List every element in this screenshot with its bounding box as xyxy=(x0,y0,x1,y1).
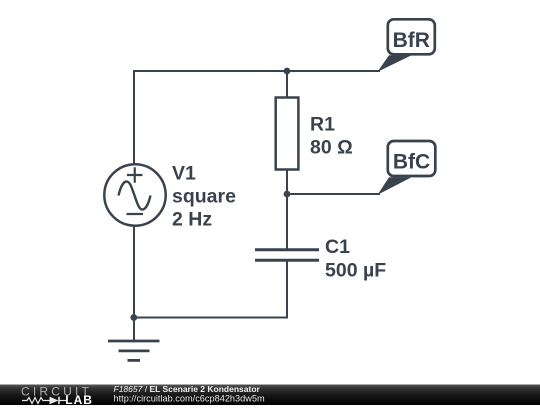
junction dot at top of R1 xyxy=(284,68,291,75)
svg-text:500 µF: 500 µF xyxy=(325,259,386,281)
wire C1 bottom lead xyxy=(286,260,288,317)
wire C1 top lead xyxy=(286,194,288,249)
footer title line xyxy=(114,384,261,394)
svg-text:LAB: LAB xyxy=(65,393,93,405)
capacitor C1 bottom plate xyxy=(255,259,319,262)
ground symbol xyxy=(108,341,160,360)
junction dot node between R1 and C1 xyxy=(284,191,291,198)
svg-text:http://circuitlab.com/c6cp842h: http://circuitlab.com/c6cp842h3dw5m xyxy=(114,393,266,403)
svg-text:80 Ω: 80 Ω xyxy=(310,136,353,158)
svg-text:V1: V1 xyxy=(172,163,196,185)
flag BfC box xyxy=(388,141,436,176)
C1 value label xyxy=(325,236,386,281)
resistor R1 body xyxy=(276,98,299,170)
svg-text:R1: R1 xyxy=(310,113,335,135)
voltage source V1 circle xyxy=(104,164,165,225)
wire left vertical (V1 to ground) xyxy=(133,225,135,341)
flag BfC label xyxy=(393,151,430,174)
CircuitLab logo resistor zigzag and diode xyxy=(22,397,66,405)
svg-text:C1: C1 xyxy=(325,236,350,258)
wire R1 top lead xyxy=(286,71,288,98)
flag BfR label xyxy=(393,29,430,52)
V1 minus sign xyxy=(127,213,144,215)
wire R1 bottom lead xyxy=(286,170,288,195)
V1 value label xyxy=(172,163,236,231)
flag BfR pointer xyxy=(378,55,412,72)
footer bar xyxy=(0,385,540,406)
CircuitLab logo wordmark LAB xyxy=(65,393,93,407)
flag BfC pointer xyxy=(378,177,412,195)
svg-text:BfR: BfR xyxy=(393,29,430,52)
footer url line xyxy=(114,393,266,403)
V1 plus sign xyxy=(127,167,143,183)
CircuitLab logo wordmark CIRCUIT xyxy=(21,385,92,399)
wire node to BfC flag xyxy=(287,193,380,195)
junction dot at ground node xyxy=(130,314,137,321)
svg-text:square: square xyxy=(172,186,236,208)
svg-text:2 Hz: 2 Hz xyxy=(172,209,212,231)
R1 value label xyxy=(310,113,353,158)
capacitor C1 top plate xyxy=(255,248,319,251)
svg-text:BfC: BfC xyxy=(393,151,430,174)
wire left vertical (top half, V1 to top net) xyxy=(133,70,135,164)
V1 sine wave xyxy=(119,182,151,210)
flag BfR box xyxy=(388,19,435,54)
wire top horizontal net xyxy=(134,70,380,72)
wire bottom horizontal net xyxy=(134,317,289,319)
